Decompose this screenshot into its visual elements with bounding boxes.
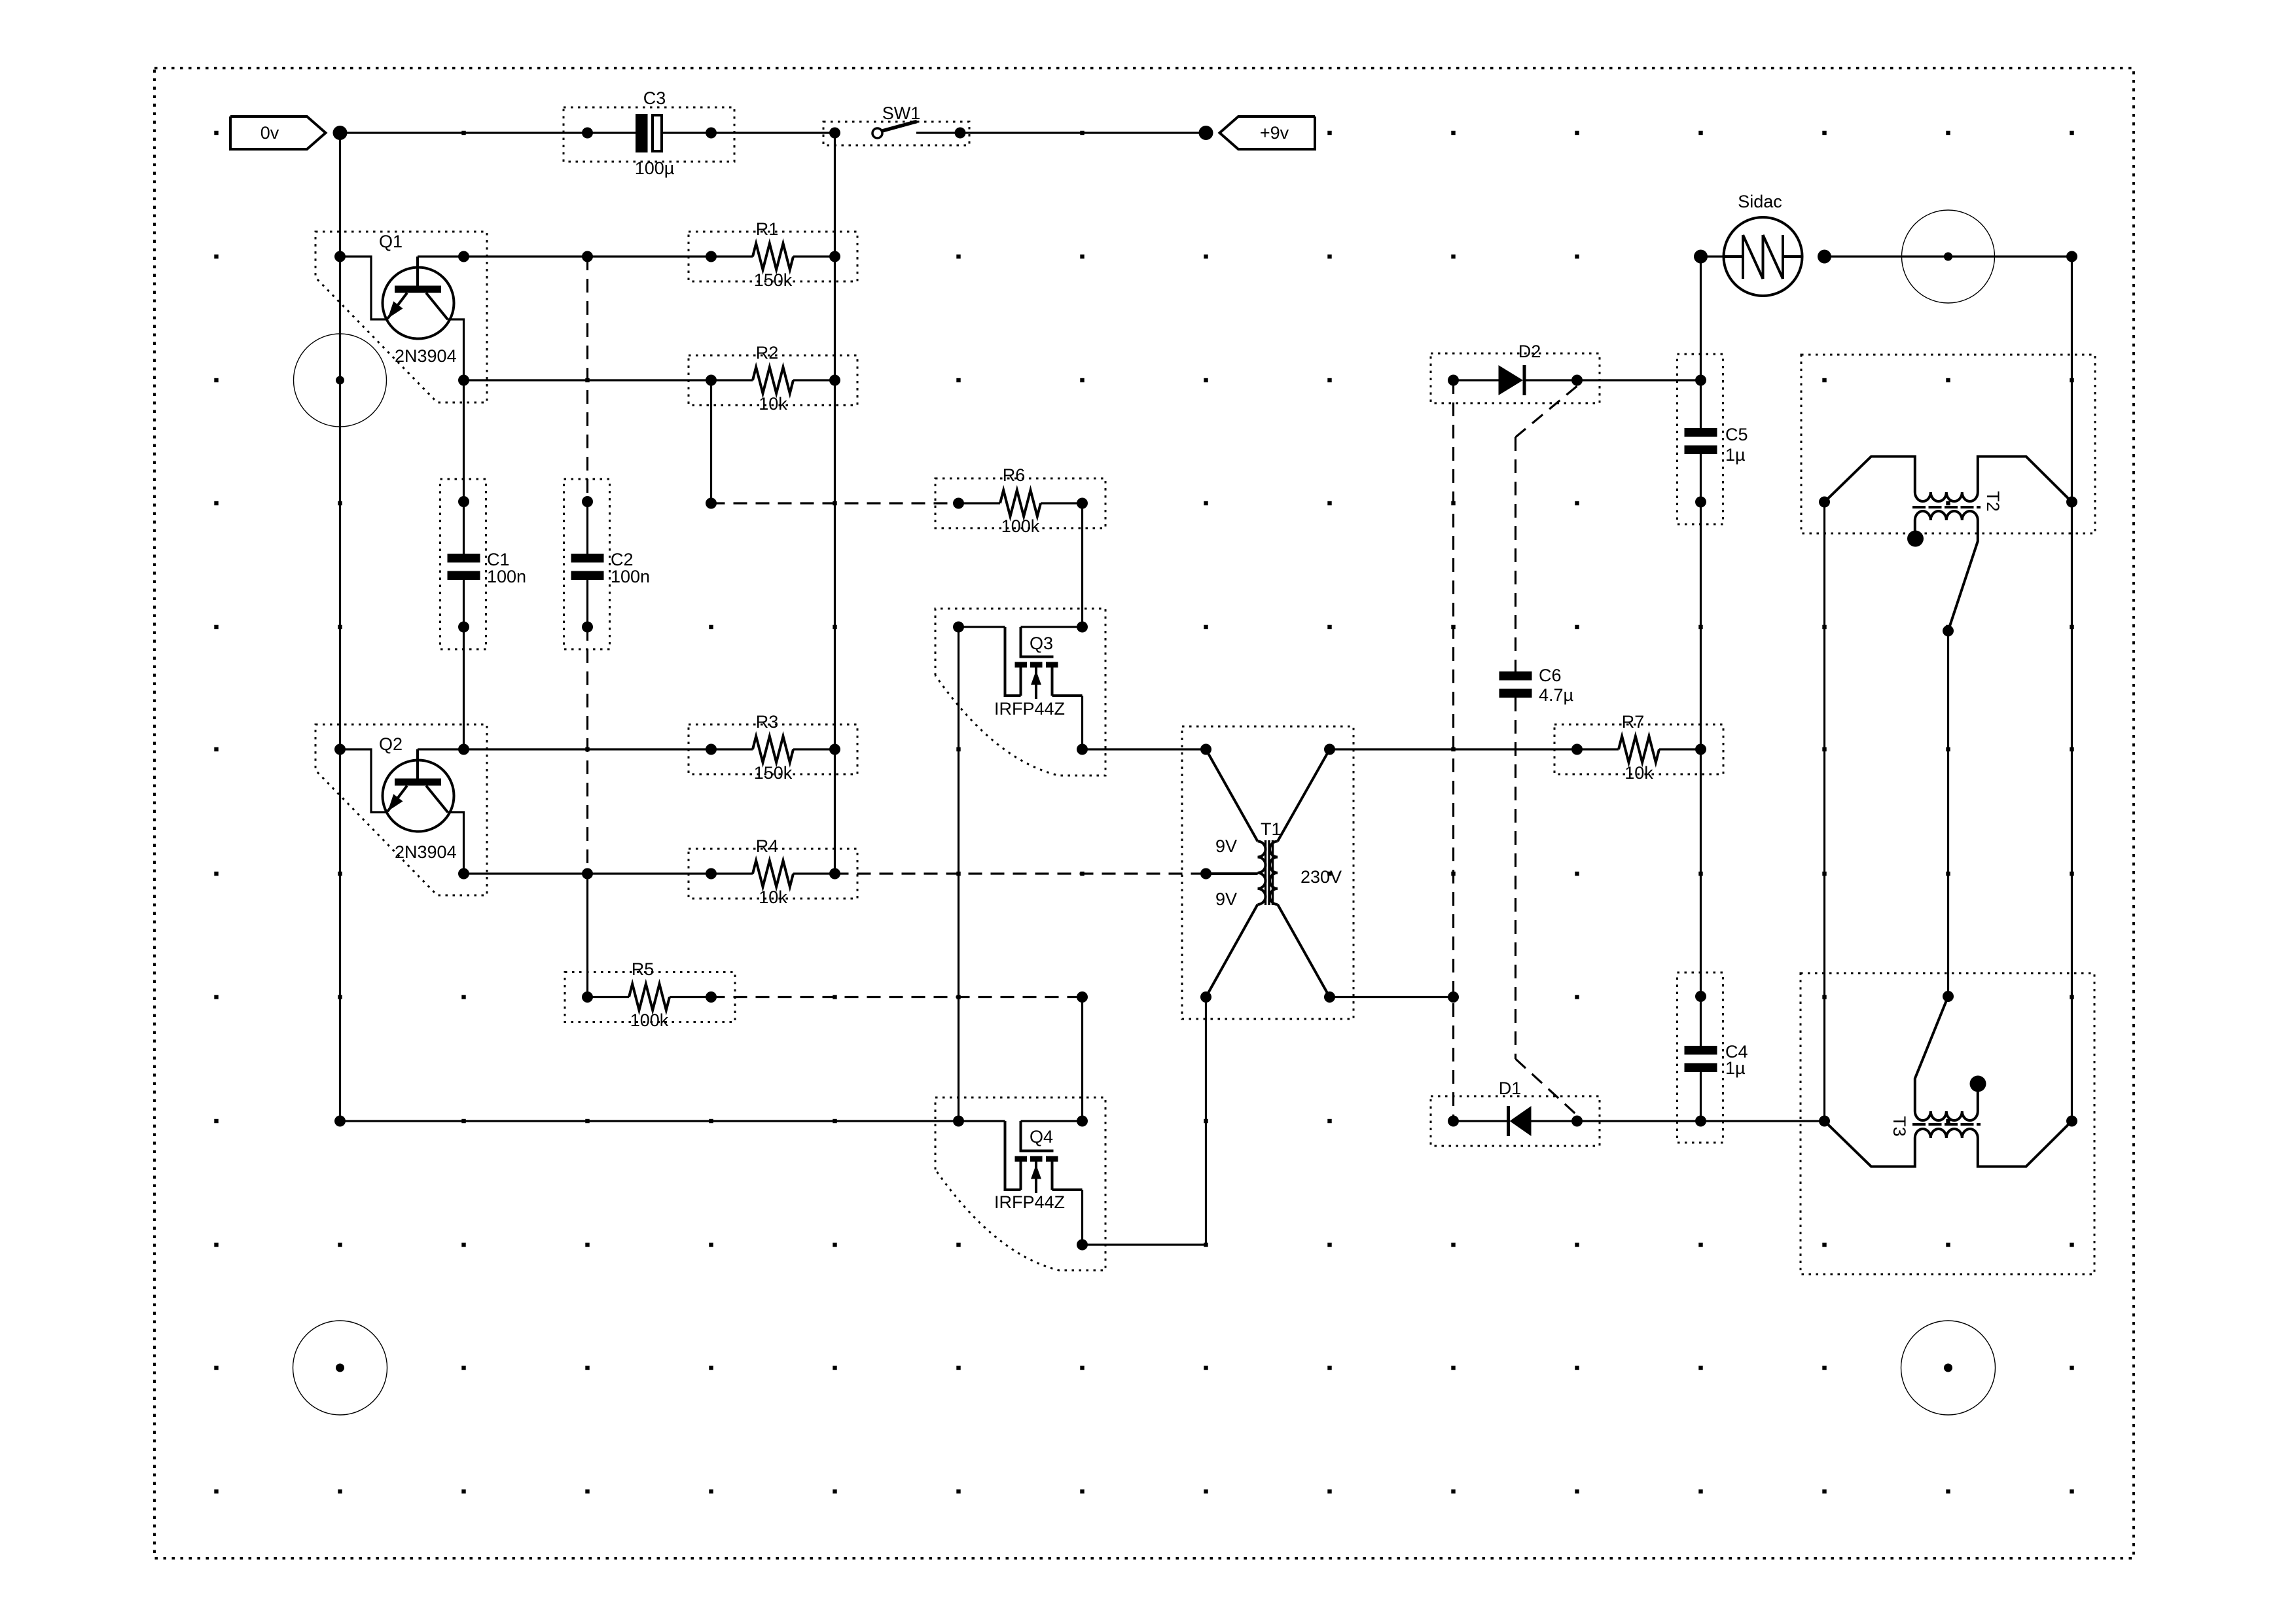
transformer T2 box [1801,355,2095,533]
diode D2 box [1431,353,1600,403]
flag +9v [1220,116,1316,149]
node R4 left corner [458,868,469,880]
resistor R1 box [689,232,857,281]
transistor Q4 [1020,1121,1022,1151]
node Q3 drain [1077,744,1088,755]
wire dashed C6 top [1515,437,1516,671]
wire C1 to Q2 [463,627,465,749]
node T1 bottom corner [1448,991,1459,1003]
wire T1 bottom right [1330,996,1454,998]
svg-text:R7: R7 [1622,712,1645,732]
transformer T1 box [1182,726,1354,1019]
node 0v junction [333,126,348,140]
transistor Q2 box [315,724,487,895]
svg-text:IRFP44Z: IRFP44Z [994,699,1065,719]
svg-text:C3: C3 [643,88,666,108]
wire R7 to C4 [1700,749,1702,997]
svg-text:IRFP44Z: IRFP44Z [994,1192,1065,1212]
svg-text:Q1: Q1 [379,232,403,251]
node Q4 gate [1077,1116,1088,1127]
sheet border [154,68,2134,1558]
node sidac left [1694,250,1708,264]
resistor R2 [706,375,717,386]
marker circle top-right [1902,210,1995,303]
svg-text:100k: 100k [1001,516,1040,536]
resistor R6 box [935,478,1105,528]
svg-text:4.7µ: 4.7µ [1539,685,1573,705]
wire T2 to T3 link [1947,631,1949,997]
node Q1 base corner [458,251,469,262]
capacitor C1 [458,496,469,507]
wire SW1 column [834,133,836,874]
node Q4 drain [1077,1240,1088,1251]
wire Q4 drain [1081,1190,1083,1245]
node C5 top [1695,375,1706,386]
node Q3 gate [1077,622,1088,633]
svg-text:R2: R2 [756,343,779,363]
resistor R3 box [689,724,857,774]
capacitor C5 box [1677,354,1723,524]
transistor Q1 [383,268,454,339]
svg-text:Q3: Q3 [1030,633,1053,653]
svg-text:9V: 9V [1215,889,1237,909]
node Q3 source [953,622,964,633]
node Q1 dashed branch [582,251,593,262]
resistor R4 box [689,849,857,899]
switch SW1 [829,128,840,139]
node Q2 base corner [458,744,469,755]
svg-text:10k: 10k [759,394,787,414]
wire R6 to Q3 [1081,503,1083,627]
resistor R5 box [565,972,735,1022]
capacitor C3 [636,114,648,152]
wire R4 row [464,872,711,874]
resistor R2 box [689,355,857,405]
resistor R5 [582,991,593,1003]
svg-text:150k: 150k [754,270,793,290]
wire R2 down [710,380,712,503]
node lamp center [1944,253,1952,261]
wire sidac to corner [1825,255,2072,257]
node Q1 emitter [334,251,346,262]
svg-text:1µ: 1µ [1725,1058,1746,1078]
svg-text:T3: T3 [1890,1116,1909,1137]
diode D1 [1448,1116,1459,1127]
resistor R4 [706,868,717,880]
transistor Q2 collector wire [448,812,464,874]
wire Q3 source row [959,626,1005,628]
svg-text:Q2: Q2 [379,734,403,754]
switch SW1 box [823,122,969,145]
wire C4 to T3 [1701,1120,1825,1122]
transistor Q1 emitter wire [340,257,388,319]
node Q2 emitter [334,744,346,755]
transformer T3 pins [1819,1116,1830,1127]
svg-text:R4: R4 [756,836,779,856]
capacitor C2 [582,496,593,507]
wire Q4 gate row [1021,1120,1083,1122]
wire R2 row [464,379,711,381]
resistor R3 [706,744,717,755]
node R2 left corner [458,375,469,386]
node R5 dash corner [1077,991,1088,1003]
svg-text:100µ: 100µ [635,158,675,178]
wire dashed D2-D1 left [1452,380,1454,1121]
svg-text:Q4: Q4 [1030,1127,1053,1147]
wire source bus [958,627,960,1121]
wire Q2 base row [418,748,711,750]
wire T2 left down [1823,502,1825,1121]
marker circle bottom-right [1901,1321,1996,1415]
svg-text:C6: C6 [1539,666,1562,685]
transistor Q1 box [315,232,487,402]
wire Q1 base row [418,255,711,257]
wire sidac left [1701,255,1724,257]
wire dashed R5 right [711,996,1083,998]
wire dashed to R6 [711,502,959,504]
svg-text:100n: 100n [487,567,526,586]
svg-text:R5: R5 [632,959,655,979]
svg-text:230V: 230V [1300,867,1342,887]
wire dashed D2 diag [1516,386,1577,437]
wire to Q4 gate [1081,997,1083,1122]
wire rail to Q4 [340,1120,959,1122]
transistor Q4 box [935,1097,1105,1270]
resistor R1 [706,251,717,262]
capacitor C1 box [440,479,486,649]
svg-text:T1: T1 [1261,819,1282,839]
svg-text:D2: D2 [1518,342,1541,361]
svg-text:T2: T2 [1983,491,2003,512]
svg-text:R1: R1 [756,219,779,239]
diode D1 box [1431,1096,1600,1146]
transformer T1 pins [1200,744,1211,755]
node right top corner [2066,251,2077,262]
wire right bus lower [2071,502,2073,1121]
wire Q3 drain [1081,696,1083,749]
transistor Q3 [1020,627,1022,657]
diode D2 [1448,375,1459,386]
wire right bus upper [2071,257,2073,502]
wire dashed C2 bottom [586,627,588,874]
wire C5 to R7 [1700,502,1702,749]
svg-text:100n: 100n [611,567,650,586]
svg-text:10k: 10k [1624,763,1653,783]
wire SW1 to +9v [916,132,1206,134]
capacitor C4 [1695,991,1706,1002]
wire T1 to R7 [1330,748,1577,750]
resistor R7 [1571,744,1583,755]
svg-text:R6: R6 [1003,465,1026,485]
transistor Q2 [383,760,454,832]
transformer T1 [1206,749,1258,842]
wire R2 to C1 [463,380,465,502]
svg-text:9V: 9V [1215,836,1237,856]
marker circle bottom-left [293,1321,387,1415]
transformer T3 [1825,1121,1915,1167]
wire Q3 gate row [1021,626,1083,628]
svg-text:SW1: SW1 [882,103,921,123]
svg-text:D1: D1 [1499,1079,1522,1098]
svg-text:10k: 10k [759,887,787,907]
sidac [1724,217,1803,296]
wire Q4 source row [959,1120,1005,1122]
wire R4 to R5 [586,874,588,997]
svg-text:R3: R3 [756,712,779,732]
node rail end [334,1116,346,1127]
transformer T2 [1825,457,1915,503]
capacitor C2 box [564,479,610,649]
svg-text:1µ: 1µ [1725,445,1746,465]
wire Q3 drain to T1 [1083,748,1206,750]
node R5 branch [582,868,593,880]
svg-text:150k: 150k [754,763,793,783]
wire dashed R4 to T1 [835,872,1206,874]
resistor R6 [953,498,964,509]
wire C5 top [1700,257,1702,380]
node +9v junction [1199,126,1213,140]
svg-text:C5: C5 [1725,425,1748,444]
wire D2 to C5 [1577,379,1701,381]
resistor R7 box [1554,724,1723,774]
wire Q4 drain to T1 [1083,997,1206,1245]
capacitor C4 box [1677,972,1723,1143]
flag 0v [230,116,326,149]
node dash corner [706,498,717,509]
wire C3 to SW1 [662,132,835,134]
node Q4 source [953,1116,964,1127]
wire dashed C2 top [586,257,588,502]
svg-text:+9v: +9v [1260,123,1289,143]
marker circle top-left [294,334,387,427]
svg-text:Sidac: Sidac [1738,192,1782,211]
svg-text:2N3904: 2N3904 [395,346,457,366]
svg-text:2N3904: 2N3904 [395,842,457,862]
wire dashed D1 diag [1516,1059,1577,1115]
svg-text:0v: 0v [260,123,279,143]
wire 0v rail [339,133,341,1121]
svg-text:100k: 100k [630,1010,669,1030]
transformer T3 box [1801,973,2094,1274]
grid dots [214,131,218,135]
transformer T2 pins [1819,497,1830,508]
transistor Q1 collector wire [448,319,464,380]
capacitor C5 [1700,380,1702,428]
transistor Q3 box [935,609,1105,776]
capacitor C3 box [564,107,734,162]
wire 0v to C3 [340,132,636,134]
capacitor C6 [1499,671,1532,681]
wire dashed C6 bottom [1515,698,1516,1059]
wire D1 to C4 [1577,1120,1701,1122]
transistor Q2 emitter wire [340,749,388,812]
